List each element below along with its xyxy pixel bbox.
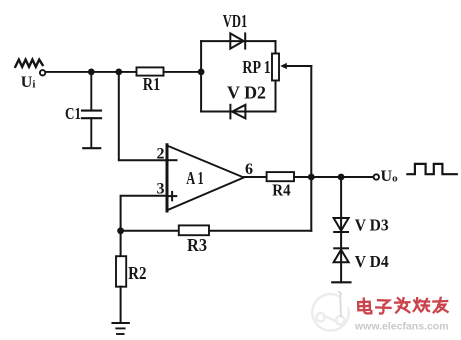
- wire pin3: [121, 196, 167, 231]
- wire diode box right vertical top: [275, 41, 277, 53]
- square wave icon: [407, 164, 456, 174]
- svg-text:Ui: Ui: [21, 74, 36, 91]
- capacitor C1: [82, 111, 101, 119]
- watermark text 烧: [414, 298, 430, 312]
- wire diode box right vertical bottom: [275, 81, 277, 112]
- wire R4 to Uo: [294, 176, 374, 178]
- node output junction 2: [338, 174, 345, 181]
- wire diode box bottom branch: [201, 111, 275, 113]
- wire diode box top branch: [201, 40, 275, 42]
- wire output node down to feedback: [310, 177, 312, 231]
- ground (R2): [112, 323, 128, 334]
- watermark text 子: [376, 300, 391, 314]
- watermark text 发: [395, 298, 410, 313]
- resistor R2: [116, 256, 126, 287]
- resistor R1: [137, 67, 164, 75]
- svg-text:2: 2: [157, 145, 165, 162]
- svg-text:V D4: V D4: [355, 252, 389, 271]
- svg-text:www.elecfans.com: www.elecfans.com: [354, 321, 449, 333]
- diode VD3: [334, 218, 349, 232]
- wire VD3 to VD4: [340, 232, 342, 262]
- svg-text:V D3: V D3: [355, 216, 389, 235]
- watermark text 电: [358, 298, 371, 313]
- wire R2 top: [120, 231, 122, 256]
- wire diode box left vertical: [200, 41, 202, 111]
- op-amp A1: [167, 146, 244, 211]
- input source squiggle: [15, 60, 42, 67]
- node output junction 1: [308, 174, 315, 181]
- node diode box left: [198, 69, 205, 76]
- svg-text:R4: R4: [272, 181, 291, 200]
- terminal Uo: [374, 174, 379, 179]
- svg-text:V D2: V D2: [227, 83, 266, 103]
- svg-text:R3: R3: [187, 235, 207, 255]
- svg-text:A 1: A 1: [186, 168, 204, 188]
- wire R2 bottom: [120, 287, 122, 323]
- diode VD2: [230, 105, 245, 119]
- resistor R4: [267, 172, 294, 181]
- svg-text:C1: C1: [65, 104, 81, 123]
- svg-text:Uo: Uo: [381, 168, 399, 185]
- RP1 wiper arrow: [280, 63, 311, 69]
- resistor R3: [179, 225, 209, 235]
- svg-text:RP 1: RP 1: [242, 57, 270, 77]
- watermark logo: [312, 292, 348, 331]
- node C1 junction: [88, 69, 95, 76]
- svg-text:R1: R1: [143, 74, 161, 94]
- op-amp minus input tick: [168, 159, 177, 161]
- wire pin2: [119, 72, 177, 160]
- wire C1 bottom: [90, 118, 92, 148]
- op-amp plus input marker: [168, 192, 176, 200]
- input terminal: [40, 70, 45, 75]
- node pin2 junction: [115, 69, 122, 76]
- wire wiper to output node: [310, 66, 312, 177]
- svg-text:R2: R2: [128, 263, 146, 283]
- diode VD1: [230, 33, 245, 48]
- node feedback junction: [117, 227, 124, 234]
- wire C1 top: [90, 72, 92, 110]
- watermark text 友: [433, 298, 447, 313]
- ground (VD4): [332, 281, 350, 283]
- potentiometer RP1: [272, 54, 279, 81]
- ground (C1): [83, 147, 100, 149]
- svg-text:VD1: VD1: [223, 11, 248, 31]
- diode VD4: [334, 248, 349, 262]
- wire R1 to diode box: [164, 71, 202, 73]
- svg-text:6: 6: [245, 161, 253, 178]
- wire feedback R3 line: [209, 230, 311, 232]
- wire output node to VD3: [340, 177, 342, 232]
- wire VD4 bottom: [340, 262, 342, 282]
- wire input to R1: [46, 71, 137, 73]
- wire opamp output to R4: [244, 176, 267, 178]
